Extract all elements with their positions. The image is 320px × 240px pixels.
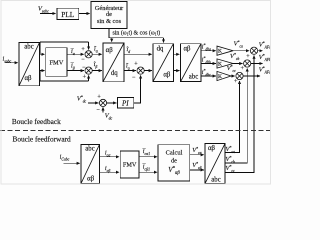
svg-text:αβ: αβ [183,45,191,52]
svg-text:+: + [234,79,238,85]
svg-text:K: K [218,49,222,55]
svg-text:abc: abc [85,146,94,153]
svg-text:K: K [218,74,222,80]
svg-text:abc: abc [24,43,33,50]
svg-text:+: + [134,61,138,67]
svg-text:sin (ω1t) & cos (ω1t): sin (ω1t) & cos (ω1t) [113,29,161,36]
svg-text:abc: abc [211,177,220,184]
svg-text:Boucle feedback: Boucle feedback [12,117,61,126]
svg-text:αβ: αβ [163,71,171,78]
svg-text:−: − [97,107,101,113]
svg-text:FMV: FMV [49,59,63,66]
svg-text:+: + [246,54,250,60]
svg-text:dq: dq [157,45,164,52]
svg-text:abc: abc [189,73,198,80]
svg-text:αβ: αβ [24,75,32,82]
svg-text:dq: dq [111,70,118,77]
svg-text:αβ: αβ [106,47,114,54]
svg-text:αβ: αβ [87,176,95,183]
svg-text:K: K [218,61,222,67]
svg-text:FMV: FMV [123,162,137,169]
svg-text:Boucle feedforward: Boucle feedforward [13,135,71,144]
svg-text:Calcul: Calcul [166,150,183,157]
svg-text:αβ: αβ [208,145,216,152]
svg-text:PI: PI [121,99,129,107]
svg-text:de: de [171,158,177,165]
svg-text:PLL: PLL [61,10,75,19]
svg-text:sin & cos: sin & cos [97,18,122,25]
svg-text:+: + [241,66,245,72]
